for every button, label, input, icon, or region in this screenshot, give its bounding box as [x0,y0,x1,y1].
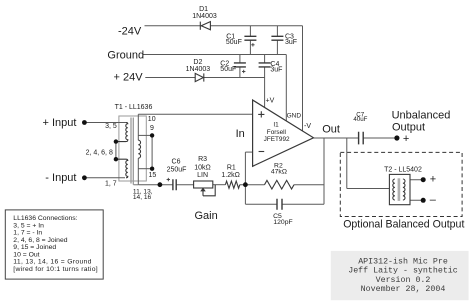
svg-text:Output: Output [392,121,425,133]
svg-text:T1 - LL1636: T1 - LL1636 [115,104,153,111]
svg-text:250uF: 250uF [167,167,187,174]
svg-text:R3: R3 [198,156,207,163]
svg-text:2, 4, 6, 8 = Joined: 2, 4, 6, 8 = Joined [13,237,67,244]
svg-text:120pF: 120pF [273,219,292,226]
svg-text:Out: Out [322,123,340,135]
svg-text:50uF: 50uF [220,66,236,73]
svg-text:1N4003: 1N4003 [186,66,211,73]
svg-text:14, 16: 14, 16 [133,194,152,201]
svg-text:Unbalanced: Unbalanced [392,109,451,121]
svg-text:+ Input: + Input [43,117,77,129]
svg-text:JFET992: JFET992 [264,136,290,143]
svg-text:Optional Balanced Output: Optional Balanced Output [343,218,464,230]
svg-text:Gain: Gain [195,210,218,222]
svg-text:-24V: -24V [118,26,142,38]
svg-text:11, 13, 14, 16 = Ground: 11, 13, 14, 16 = Ground [13,259,91,266]
svg-text:1, 7 = - In: 1, 7 = - In [13,230,42,237]
svg-text:1N4003: 1N4003 [192,13,217,20]
svg-text:Ground: Ground [107,50,144,62]
svg-text:–: – [430,194,437,206]
svg-text:1, 7: 1, 7 [105,180,117,187]
svg-text:Forsell: Forsell [267,129,286,136]
svg-text:LL1636 Connections:: LL1636 Connections: [13,215,77,222]
svg-text:In: In [236,128,245,140]
svg-text:3, 5: 3, 5 [105,123,117,130]
svg-text:T2 - LL5402: T2 - LL5402 [384,166,422,173]
svg-text:API312-ish Mic Pre: API312-ish Mic Pre [358,256,448,266]
svg-text:-V: -V [304,123,311,130]
svg-text:40uF: 40uF [353,116,367,123]
svg-text:C6: C6 [172,159,181,166]
svg-text:15: 15 [149,172,157,179]
svg-text:GND: GND [287,113,302,120]
svg-text:2, 4, 6, 8: 2, 4, 6, 8 [86,149,113,156]
svg-text:9, 15 = Joined: 9, 15 = Joined [13,244,56,251]
svg-text:+ 24V: + 24V [114,72,144,84]
svg-text:3uF: 3uF [285,39,297,46]
svg-text:10kΩ: 10kΩ [194,165,211,172]
svg-text:10 = Out: 10 = Out [13,251,39,258]
svg-text:3, 5 = + In: 3, 5 = + In [13,222,44,229]
svg-text:[wired for 10:1 turns ratio]: [wired for 10:1 turns ratio] [13,266,98,273]
svg-text:10: 10 [148,116,156,123]
svg-text:D1: D1 [199,6,208,13]
svg-text:Version 0.2: Version 0.2 [376,275,431,285]
svg-text:November 28, 2004: November 28, 2004 [361,284,446,294]
svg-text:+: + [403,133,409,145]
svg-text:- Input: - Input [45,172,76,184]
svg-text:50uF: 50uF [226,39,242,46]
svg-text:R1: R1 [227,165,236,172]
svg-text:+: + [430,174,436,186]
svg-text:9: 9 [150,125,154,132]
svg-text:1.2kΩ: 1.2kΩ [221,172,239,179]
svg-text:47kΩ: 47kΩ [271,169,287,176]
svg-text:3uF: 3uF [270,67,282,74]
svg-text:I1: I1 [273,122,279,129]
svg-text:Jeff Laity - synthetic: Jeff Laity - synthetic [348,266,458,276]
svg-text:+V: +V [266,98,275,105]
svg-text:LIN: LIN [197,172,208,179]
